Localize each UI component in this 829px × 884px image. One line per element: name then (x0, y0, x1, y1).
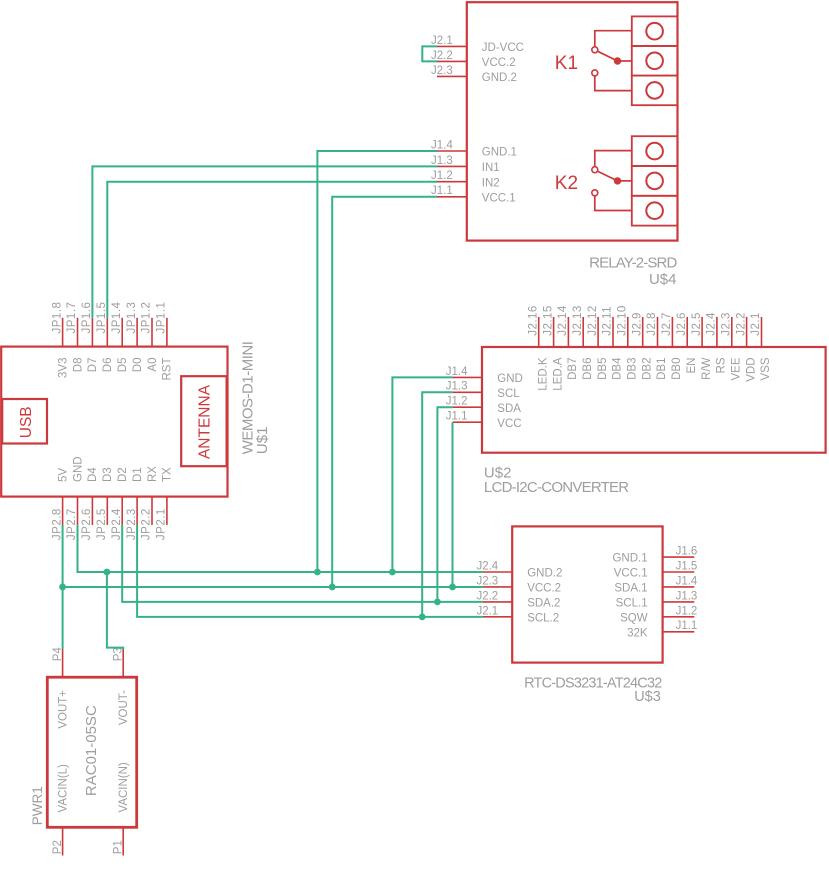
svg-text:SCL: SCL (497, 388, 520, 400)
svg-text:J2.1: J2.1 (750, 312, 762, 336)
svg-text:DB7: DB7 (567, 358, 579, 380)
svg-text:JP2.6: JP2.6 (81, 508, 93, 540)
svg-text:5V: 5V (57, 468, 69, 482)
svg-text:J2.2: J2.2 (431, 50, 453, 62)
svg-text:J2.2: J2.2 (735, 312, 747, 336)
svg-text:J2.11: J2.11 (602, 306, 614, 336)
svg-text:PWR1: PWR1 (30, 786, 45, 825)
svg-text:D1: D1 (132, 467, 144, 482)
svg-text:R/W: R/W (701, 357, 713, 380)
svg-text:JP1.4: JP1.4 (111, 301, 123, 333)
wire IN1 relay J1.3 to WeMos D7 (92, 166, 437, 317)
RTC pin J1.6 (GND.1) (663, 556, 695, 558)
junction VCC bus / relay VCC.1 (329, 584, 336, 591)
svg-text:J1.3: J1.3 (431, 155, 453, 167)
svg-text:JP1.3: JP1.3 (126, 302, 138, 334)
svg-text:J1.4: J1.4 (446, 366, 468, 378)
WeMos pin JP1.5 (D6) (106, 318, 108, 347)
svg-text:GND.1: GND.1 (482, 147, 517, 159)
svg-text:J1.2: J1.2 (676, 605, 698, 617)
svg-text:JP2.3: JP2.3 (126, 508, 138, 540)
svg-text:J2.14: J2.14 (557, 305, 569, 336)
svg-text:VCC: VCC (497, 418, 521, 430)
svg-text:J2.2: J2.2 (476, 590, 498, 602)
wire LCD SCL to SCL bus (422, 392, 452, 617)
svg-text:DB0: DB0 (671, 358, 683, 380)
relay K1 terminal screw 1 (646, 23, 663, 40)
wire GND.1 from relay J1.4 (317, 151, 437, 572)
LCD pin J2.12 (DB5) (597, 317, 599, 347)
svg-text:J2.3: J2.3 (431, 65, 453, 77)
RTC DS3231 U$3 body (512, 526, 662, 662)
RTC pin J1.1 (32K) (663, 631, 695, 633)
RTC pin J2.3 (VCC.2) (483, 586, 512, 588)
svg-text:JP1.8: JP1.8 (51, 302, 63, 334)
relay K1 pole dot (614, 58, 620, 64)
RTC pin J1.3 (SCL.1) (663, 601, 695, 603)
svg-text:J2.4: J2.4 (476, 560, 498, 572)
svg-text:J2.8: J2.8 (646, 312, 658, 336)
WeMos pin JP1.6 (D7) (91, 318, 93, 347)
relay K2 NC contact (592, 167, 598, 173)
wire GND bus WeMos GND to RTC J2.4 (78, 525, 483, 572)
svg-text:JP2.5: JP2.5 (96, 508, 108, 540)
svg-text:J1.5: J1.5 (676, 560, 698, 572)
LCD pin J2.4 (RS) (716, 317, 718, 347)
WeMos pin JP2.2 (RX) (151, 497, 153, 525)
svg-text:J1.2: J1.2 (431, 170, 453, 182)
PWR1 pin P2 (VACIN(L)) (62, 827, 64, 855)
svg-text:JP1.1: JP1.1 (156, 302, 168, 334)
svg-text:JP2.8: JP2.8 (51, 508, 63, 540)
relay K1 NO wire (595, 76, 632, 91)
svg-text:U$1: U$1 (254, 427, 271, 455)
svg-text:J1.3: J1.3 (676, 590, 698, 602)
svg-text:VACIN(N): VACIN(N) (118, 762, 130, 812)
LCD pin J2.10 (DB3) (627, 317, 629, 347)
relay K1 common pole wire (618, 60, 632, 62)
svg-text:DB3: DB3 (627, 358, 639, 380)
svg-text:J1.6: J1.6 (676, 545, 698, 557)
relay pin J2.3 (GND.2) (437, 75, 467, 77)
svg-text:JP2.4: JP2.4 (111, 508, 123, 540)
svg-text:GND: GND (497, 373, 523, 385)
relay K2 switch arm (597, 171, 617, 181)
svg-text:J1.1: J1.1 (446, 411, 468, 423)
relay K1 terminal cell 1 (632, 16, 678, 46)
svg-text:VACIN(L): VACIN(L) (58, 764, 70, 813)
LCD I2C converter U$2 body (482, 347, 826, 453)
LCD pin J2.8 (DB1) (657, 317, 659, 347)
WeMos D1 mini U$1 body (1, 347, 227, 497)
WeMos pin JP2.3 (D1) (136, 497, 138, 525)
WeMos pin JP2.5 (D3) (106, 497, 108, 525)
wire JD-VCC to VCC.2 jumper (422, 46, 437, 61)
RTC pin J2.1 (SCL.2) (483, 616, 512, 618)
svg-text:J1.1: J1.1 (676, 620, 698, 632)
RTC pin J2.4 (GND.2) (483, 571, 512, 573)
WeMos pin JP2.6 (D4) (91, 497, 93, 525)
power supply PWR1 body (47, 677, 136, 827)
junction VCC bus / P4 (59, 584, 66, 591)
relay pin J1.2 (IN2) (437, 181, 467, 183)
LCD pin J2.5 (R/W) (701, 317, 703, 347)
relay K1 terminal cell 2 (632, 46, 678, 76)
RTC pin J1.4 (SDA.1) (663, 586, 695, 588)
wire LCD GND to GND bus (392, 377, 452, 572)
LCD pin J2.14 (DB7) (567, 317, 569, 347)
svg-text:VOUT-: VOUT- (118, 690, 130, 725)
svg-text:DB2: DB2 (641, 358, 653, 380)
WeMos pin JP1.2 (A0) (151, 318, 153, 347)
svg-text:J2.16: J2.16 (527, 305, 539, 336)
svg-text:D8: D8 (72, 358, 84, 373)
svg-text:VCC.2: VCC.2 (527, 583, 561, 595)
svg-text:D7: D7 (87, 358, 99, 373)
svg-text:JP1.2: JP1.2 (141, 302, 153, 334)
junction GND bus / LCD GND (389, 569, 396, 576)
LCD pin J1.4 (GND) (453, 376, 482, 378)
relay pin J2.1 (JD-VCC) (437, 45, 467, 47)
svg-text:J2.9: J2.9 (631, 312, 643, 336)
svg-text:RELAY-2-SRD: RELAY-2-SRD (589, 255, 677, 272)
relay K1 terminal screw 3 (646, 82, 663, 99)
relay K2 common pole wire (618, 180, 632, 182)
relay K2 NC wire (595, 151, 632, 167)
RTC pin J1.5 (VCC.1) (663, 571, 695, 573)
relay K1 terminal screw 2 (646, 53, 663, 70)
WeMos pin JP2.1 (TX) (166, 497, 168, 525)
LCD pin J2.3 (VEE) (731, 317, 733, 347)
relay K1 terminal cell 3 (632, 76, 678, 106)
relay K2 terminal cell 3 (632, 196, 678, 226)
LCD pin J2.16 (LED.K) (538, 317, 540, 347)
svg-text:J2.1: J2.1 (431, 35, 453, 47)
svg-text:RS: RS (716, 357, 728, 373)
svg-text:J2.10: J2.10 (617, 305, 629, 336)
wire SDA bus WeMos D2 to RTC J2.2 (122, 525, 483, 602)
svg-text:SCL.1: SCL.1 (616, 598, 648, 610)
svg-text:U$4: U$4 (649, 271, 677, 288)
svg-text:J2.12: J2.12 (587, 305, 599, 336)
svg-text:P3: P3 (113, 647, 125, 661)
svg-text:32K: 32K (627, 627, 648, 639)
svg-text:J2.3: J2.3 (476, 575, 498, 587)
svg-text:J1.1: J1.1 (431, 185, 453, 197)
svg-text:VCC.2: VCC.2 (482, 57, 516, 69)
LCD pin J2.7 (DB0) (671, 317, 673, 347)
svg-text:VDD: VDD (745, 358, 757, 382)
relay pin J1.4 (GND.1) (437, 150, 467, 152)
relay K2 terminal screw 2 (646, 173, 663, 190)
relay K1 NC wire (595, 31, 632, 47)
svg-text:VOUT+: VOUT+ (58, 690, 70, 729)
PWR1 pin P4 (VOUT+) (62, 649, 64, 677)
junction SDA bus / LCD SDA (434, 599, 441, 606)
WeMos pin JP1.1 (RST) (166, 318, 168, 347)
LCD pin J2.9 (DB2) (642, 317, 644, 347)
svg-text:TX: TX (162, 467, 174, 482)
wire VCC bus WeMos 5V to RTC J2.3 (63, 525, 483, 649)
svg-text:K1: K1 (555, 53, 578, 74)
svg-text:P2: P2 (52, 840, 64, 854)
WeMos pin JP1.7 (D8) (77, 318, 79, 347)
svg-text:SDA.2: SDA.2 (527, 598, 560, 610)
relay K1 NO contact (592, 70, 598, 76)
LCD pin J2.6 (EN) (686, 317, 688, 347)
LCD pin J2.15 (LED.A) (553, 317, 555, 347)
svg-text:D0: D0 (132, 358, 144, 373)
svg-text:D3: D3 (102, 467, 114, 482)
svg-text:JD-VCC: JD-VCC (482, 42, 524, 54)
svg-text:SCL.2: SCL.2 (527, 612, 559, 624)
svg-text:RX: RX (147, 466, 159, 482)
svg-text:SQW: SQW (620, 612, 648, 624)
svg-text:JP1.5: JP1.5 (96, 302, 108, 334)
svg-text:GND.1: GND.1 (612, 553, 647, 565)
relay K2 pole dot (614, 178, 620, 184)
PWR1 pin P3 (VOUT-) (122, 649, 124, 677)
relay K1 switch arm (597, 51, 617, 61)
wire SCL bus WeMos D1 to RTC J2.1 (137, 525, 483, 617)
relay K1 NC contact (592, 47, 598, 53)
wire LCD VCC to VCC bus (452, 422, 454, 587)
WeMos pin JP1.8 (3V3) (62, 318, 64, 347)
svg-text:LED.A: LED.A (552, 357, 564, 391)
USB connector box (2, 399, 47, 444)
svg-text:GND.2: GND.2 (482, 72, 517, 84)
svg-text:JP2.1: JP2.1 (156, 508, 168, 540)
svg-text:JP2.2: JP2.2 (141, 508, 153, 540)
svg-text:J2.1: J2.1 (476, 605, 498, 617)
junction SCL bus / LCD SCL (419, 613, 426, 620)
RTC pin J2.2 (SDA.2) (483, 601, 512, 603)
svg-text:LCD-I2C-CONVERTER: LCD-I2C-CONVERTER (484, 479, 629, 496)
LCD pin J2.13 (DB6) (582, 317, 584, 347)
RTC pin J1.2 (SQW) (663, 616, 695, 618)
junction GND bus / relay GND.1 (314, 569, 321, 576)
WeMos pin JP1.3 (D0) (136, 318, 138, 347)
svg-text:J2.4: J2.4 (706, 312, 718, 336)
svg-text:J2.7: J2.7 (661, 312, 673, 336)
wire VCC.1 from relay J1.1 (332, 197, 437, 587)
svg-text:IN1: IN1 (482, 162, 500, 174)
relay pin J1.1 (VCC.1) (437, 196, 467, 198)
LCD pin J1.1 (VCC) (453, 421, 482, 423)
svg-text:JP2.7: JP2.7 (66, 508, 78, 540)
svg-text:J2.5: J2.5 (691, 312, 703, 336)
WeMos pin JP1.4 (D5) (121, 318, 123, 347)
ANTENNA box (181, 376, 226, 466)
LCD pin J1.3 (SCL) (453, 391, 482, 393)
PWR1 pin P1 (VACIN(N)) (122, 827, 124, 855)
LCD pin J2.11 (DB4) (612, 317, 614, 347)
svg-text:SDA: SDA (497, 403, 521, 415)
svg-text:U$3: U$3 (634, 689, 661, 705)
svg-text:DB5: DB5 (597, 358, 609, 380)
svg-text:J2.15: J2.15 (542, 305, 554, 336)
junction VCC bus / LCD VCC (449, 584, 456, 591)
LCD pin J2.2 (VDD) (746, 317, 748, 347)
junction GND bus / P3 (104, 569, 111, 576)
svg-text:VEE: VEE (731, 357, 743, 380)
svg-text:3V3: 3V3 (57, 358, 69, 378)
relay module U$4 body (467, 2, 678, 240)
relay K2 terminal cell 2 (632, 166, 678, 196)
svg-text:RST: RST (162, 358, 174, 381)
svg-text:D2: D2 (117, 467, 129, 482)
svg-text:J1.2: J1.2 (446, 396, 468, 408)
svg-text:EN: EN (686, 358, 698, 374)
svg-text:VCC.1: VCC.1 (614, 568, 648, 580)
wire LCD SDA to SDA bus (437, 407, 452, 602)
relay K2 terminal screw 3 (646, 202, 663, 219)
relay K2 terminal screw 1 (646, 143, 663, 160)
svg-text:RAC01-05SC: RAC01-05SC (83, 705, 100, 796)
svg-text:D4: D4 (87, 467, 99, 482)
svg-text:J1.4: J1.4 (676, 575, 698, 587)
relay K2 NO wire (595, 196, 632, 211)
svg-text:A0: A0 (147, 358, 159, 372)
svg-text:J1.4: J1.4 (431, 139, 453, 151)
wire GND bus to PWR1 P3 (107, 572, 123, 649)
WeMos pin JP2.8 (5V) (62, 497, 64, 525)
svg-text:K2: K2 (555, 173, 578, 194)
svg-text:D6: D6 (102, 358, 114, 373)
svg-text:J2.6: J2.6 (676, 312, 688, 336)
relay pin J2.2 (VCC.2) (437, 60, 467, 62)
svg-text:VCC.1: VCC.1 (482, 192, 516, 204)
svg-text:JP1.7: JP1.7 (66, 302, 78, 334)
svg-text:SDA.1: SDA.1 (614, 583, 647, 595)
svg-text:JP1.6: JP1.6 (81, 302, 93, 334)
svg-text:D5: D5 (117, 358, 129, 373)
relay K2 terminal cell 1 (632, 136, 678, 166)
relay K2 NO contact (592, 190, 598, 196)
svg-text:DB4: DB4 (612, 357, 624, 380)
LCD pin J1.2 (SDA) (453, 406, 482, 408)
svg-text:DB1: DB1 (656, 358, 668, 380)
LCD pin J2.1 (VSS) (761, 317, 763, 347)
svg-text:GND: GND (72, 456, 84, 482)
svg-text:USB: USB (18, 406, 35, 438)
svg-text:LED.K: LED.K (537, 357, 549, 391)
svg-text:VSS: VSS (760, 357, 772, 380)
svg-text:P1: P1 (113, 840, 125, 854)
svg-text:ANTENNA: ANTENNA (197, 384, 214, 459)
svg-text:GND.2: GND.2 (527, 568, 562, 580)
WeMos pin JP2.4 (D2) (121, 497, 123, 525)
svg-text:IN2: IN2 (482, 177, 500, 189)
WeMos pin JP2.7 (GND) (77, 497, 79, 525)
wire IN2 relay J1.2 to WeMos D6 (107, 182, 437, 318)
relay pin J1.3 (IN1) (437, 165, 467, 167)
svg-text:J1.3: J1.3 (446, 381, 468, 393)
svg-text:J2.3: J2.3 (721, 312, 733, 336)
svg-text:DB6: DB6 (582, 358, 594, 380)
svg-text:J2.13: J2.13 (572, 305, 584, 336)
